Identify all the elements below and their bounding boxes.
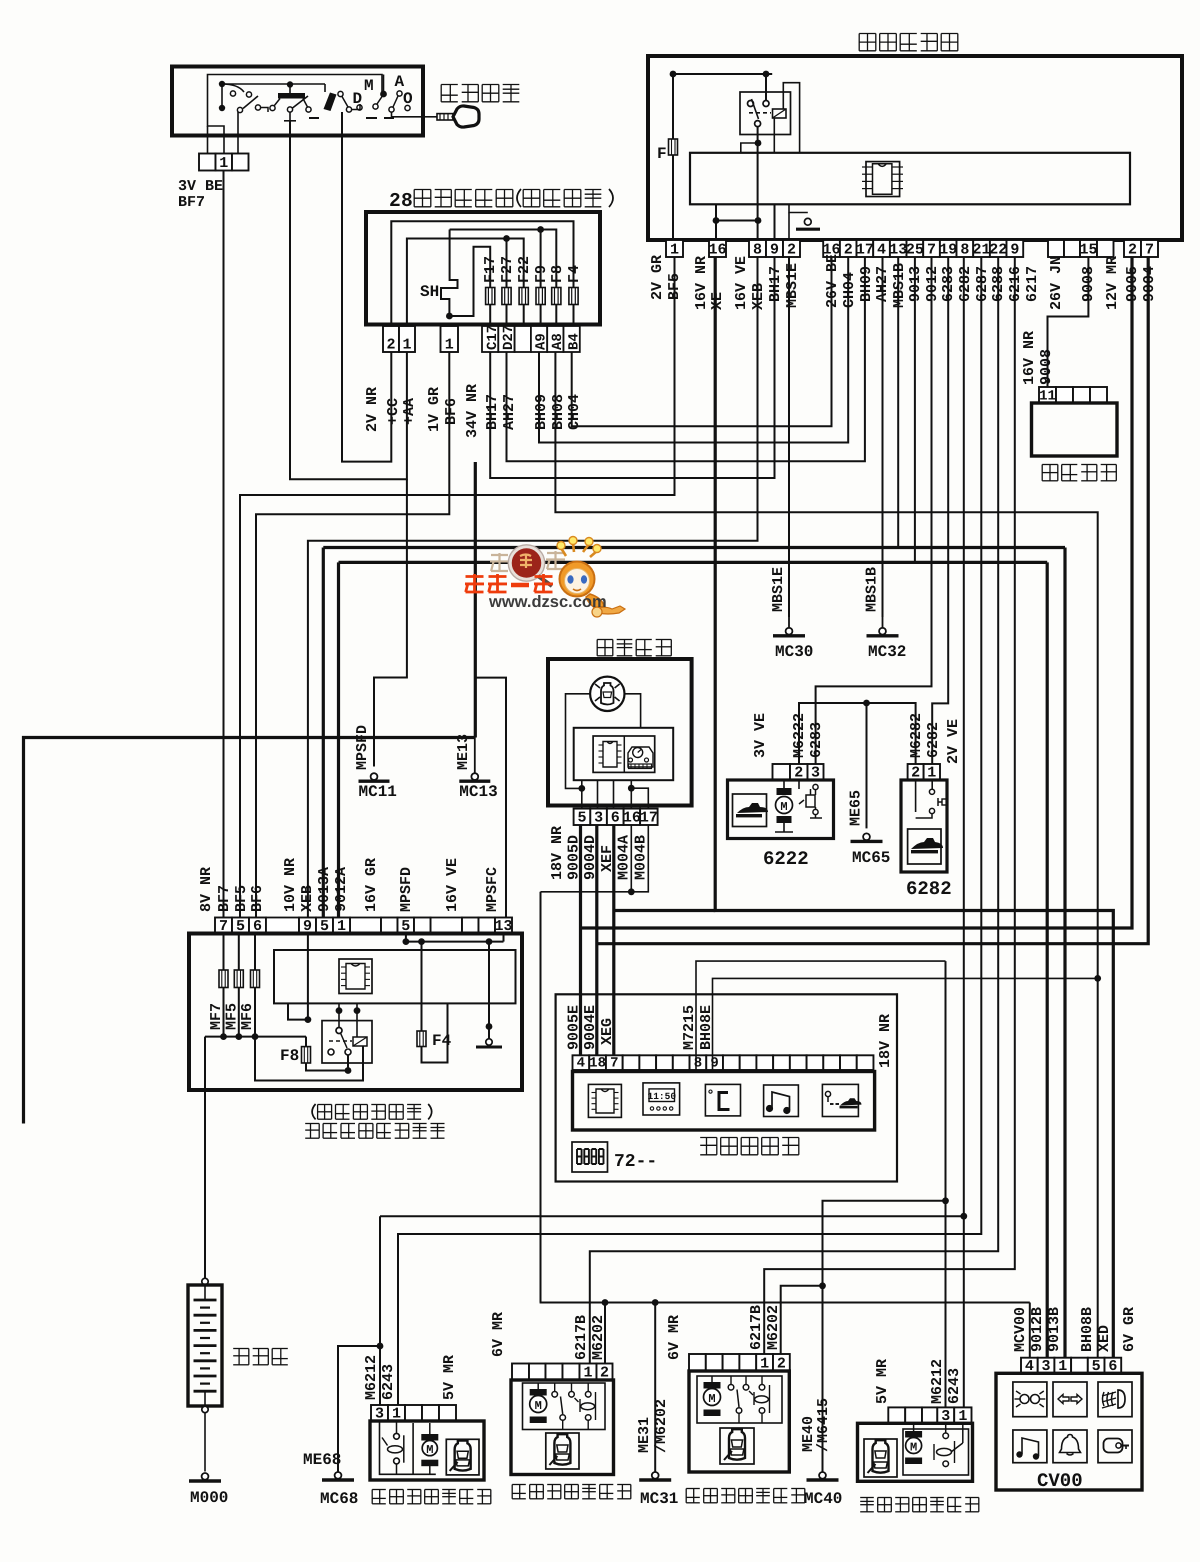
wire MF6 to relay coil xyxy=(255,1037,363,1081)
CV00 pin row 4 3 1 5 6 xyxy=(1021,1358,1038,1374)
fuse output stubs to pins xyxy=(489,305,491,325)
svg-text:16V NR: 16V NR xyxy=(693,256,710,310)
relay coil wire down to inner module xyxy=(773,118,775,153)
wire ME31 to ground MC31 xyxy=(654,1303,656,1472)
svg-text:F27: F27 xyxy=(499,256,516,283)
left-rear lock inner partition channels xyxy=(380,1421,436,1474)
svg-text:9: 9 xyxy=(770,242,779,259)
wire BF7 8V NR from ignition connector to engine fusebox pin 7 xyxy=(223,171,225,918)
fuse MF5 xyxy=(238,934,240,971)
labels 16V VE MPSFC xyxy=(444,858,461,912)
wire 1V GR BF6 from cabin fusebox to engine fusebox pin 6 xyxy=(256,352,449,918)
wire 6282 from control pin 19 to 6282 pin 1 xyxy=(932,257,948,764)
svg-text:16: 16 xyxy=(623,810,641,827)
dash segments of mechanical link xyxy=(309,117,319,119)
relay contact output wire to pins 16 and 8 xyxy=(757,127,759,221)
labels 8V NR BF7 BF5 BF6 xyxy=(198,867,215,912)
svg-text:MBS1B: MBS1B xyxy=(891,263,908,308)
wire BH08E from screen pin 9 to BH08 wire xyxy=(713,978,1098,1070)
wire 6283 from control pin 7 to 6222 pin 3 xyxy=(816,257,932,764)
svg-text:25: 25 xyxy=(906,242,924,259)
fuse F22 xyxy=(519,288,528,305)
svg-text:CH04: CH04 xyxy=(566,394,583,430)
wire 2V GR BF5 from control pin 1 to engine fusebox pin 5 xyxy=(240,257,675,918)
ground MC11 xyxy=(371,773,378,780)
ignition switch wire to fusebox +CC xyxy=(341,112,343,136)
wire F8 to relay contact xyxy=(306,1063,348,1071)
svg-text:MPSFC: MPSFC xyxy=(484,867,501,912)
svg-text:15: 15 xyxy=(1079,242,1097,259)
thick wire 34V NR horizontal run to left margin xyxy=(24,738,476,1124)
diagnostic plug title 诊断插头 xyxy=(1042,464,1058,466)
label BH17 xyxy=(767,266,784,302)
svg-text:M6212: M6212 xyxy=(929,1359,946,1404)
svg-text:6282: 6282 xyxy=(957,266,974,302)
wire M6202 rail with junctions to front lock pin2 ME31 and CV00 pin 4 xyxy=(540,1302,1030,1304)
svg-text:+AA: +AA xyxy=(401,398,418,425)
labels 16V GR MPSFD xyxy=(363,858,380,912)
left-rear lock 2 pin row 1 2 xyxy=(689,1354,706,1371)
right-rear lock pin row 3 1 xyxy=(888,1407,905,1423)
fuse MF6 xyxy=(254,934,256,971)
svg-text:BF7: BF7 xyxy=(216,885,233,912)
labels M7215 BH08E at screen pins xyxy=(681,1005,698,1050)
internal wire +AA to fuses F27 F22 xyxy=(407,239,524,325)
cluster car icon circle xyxy=(590,677,624,711)
labels 6V MR 6217B M6202 at front lock xyxy=(490,1312,507,1357)
wire MPSFC branch to engine fusebox pin 13 xyxy=(475,678,506,918)
svg-text:9005E: 9005E xyxy=(566,1005,583,1050)
svg-text:XEB: XEB xyxy=(299,885,316,912)
left-rear lock 2 motor xyxy=(704,1382,721,1389)
svg-text:CH04: CH04 xyxy=(841,272,858,308)
label MBS1E at MC30 xyxy=(770,567,787,612)
svg-text:M: M xyxy=(426,1443,433,1457)
relay coil wire around to module top xyxy=(783,83,799,153)
battery plates xyxy=(204,1285,206,1300)
fuse F8 xyxy=(305,1037,307,1047)
label 18V NR at screen right xyxy=(877,1014,894,1068)
svg-text:18V NR: 18V NR xyxy=(877,1014,894,1068)
svg-text:A: A xyxy=(395,73,405,91)
svg-text:21: 21 xyxy=(973,242,991,259)
svg-text:3V VE: 3V VE xyxy=(752,713,769,758)
svg-text:F17: F17 xyxy=(482,256,499,283)
wire rung joining left-rear lock pin 3 M6212 to 6287 line xyxy=(380,1215,964,1217)
svg-text:6287: 6287 xyxy=(974,266,991,302)
screen pin row 4 18 7 .. 8 9 xyxy=(573,1055,590,1070)
svg-text:17: 17 xyxy=(640,810,658,827)
svg-text:BH09: BH09 xyxy=(533,394,550,430)
svg-text:XEG: XEG xyxy=(599,1018,616,1045)
svg-text:5V MR: 5V MR xyxy=(874,1359,891,1404)
svg-text:MBS1B: MBS1B xyxy=(864,567,881,612)
relay inside control box xyxy=(765,74,767,101)
svg-text:16V VE: 16V VE xyxy=(733,256,750,310)
cluster inner module box xyxy=(574,728,674,780)
svg-text:AH27: AH27 xyxy=(501,394,518,430)
svg-text:16V NR: 16V NR xyxy=(1021,331,1038,385)
svg-text:12V MR: 12V MR xyxy=(1104,256,1121,310)
labels ME31 /M6202 xyxy=(636,1417,653,1453)
right-rear lock title 右后车门锁总成 xyxy=(860,1497,874,1499)
svg-text:M6212: M6212 xyxy=(363,1355,380,1400)
front lock car icon xyxy=(546,1433,579,1469)
ignition switch top link wire xyxy=(222,83,325,85)
svg-text:6217B: 6217B xyxy=(573,1315,590,1360)
wire from module to pin 16 with junction xyxy=(713,217,720,224)
wire M6212 from rung to left-rear lock pin 3 with MC68 tap xyxy=(379,1216,381,1405)
svg-text:www.dzsc.com: www.dzsc.com xyxy=(488,593,607,611)
engine panel IC chip icon xyxy=(339,959,372,994)
wire relay output to pin 8 xyxy=(757,221,759,241)
svg-text:3V BE: 3V BE xyxy=(178,178,223,195)
wire 16V VE XEB from control pin 8 to engine fusebox pin 9 xyxy=(308,257,758,918)
wire M ground net down to M6202 rail xyxy=(540,892,542,1303)
wire 6288 from control pin 21 to left-rear lock pin 1 xyxy=(398,257,981,1405)
control box pin row blanks and 15 xyxy=(1048,240,1064,257)
labels 16V VE XEB xyxy=(733,256,750,310)
svg-text:M: M xyxy=(780,800,787,814)
ignition switch wire to connector cell 3 xyxy=(237,112,239,154)
fuse F17 xyxy=(486,288,495,305)
svg-text:2: 2 xyxy=(1128,242,1137,259)
svg-text:1: 1 xyxy=(445,337,454,354)
label BH09 xyxy=(858,266,875,302)
svg-text:MF7: MF7 xyxy=(208,1003,225,1030)
left-rear lock 2 inner frame xyxy=(697,1376,782,1423)
labels 26V BE CH04 xyxy=(824,254,841,308)
ground MC31 xyxy=(652,1472,659,1479)
key symbol xyxy=(423,116,437,118)
thick wire 9013 bus from control pin 13 to engine pin 5 and CV00 pin 1 xyxy=(897,257,899,548)
svg-text:5: 5 xyxy=(577,810,586,827)
svg-text:9012A: 9012A xyxy=(333,867,350,912)
label 9008 xyxy=(1080,266,1097,302)
svg-text:CV00: CV00 xyxy=(1037,1470,1083,1492)
svg-text:1: 1 xyxy=(670,242,679,259)
IC chip symbol inside control box module xyxy=(866,162,900,197)
svg-text:MC31: MC31 xyxy=(640,1490,678,1508)
watermark logo 找芯片 with magnifier xyxy=(491,554,508,556)
label MBS1B xyxy=(891,263,908,308)
svg-text:BF6: BF6 xyxy=(249,885,266,912)
wire 6216 from control pin 22 to front lock pin 1 xyxy=(590,257,998,1364)
ground MC13 xyxy=(474,738,476,773)
CV00 box xyxy=(996,1373,1142,1490)
ground MC40 xyxy=(819,1472,826,1479)
right-rear lock inner frame xyxy=(903,1429,969,1475)
svg-text:6: 6 xyxy=(611,810,620,827)
internal wire +CC to fuse F4 xyxy=(391,221,573,324)
svg-text:72--: 72-- xyxy=(614,1152,657,1172)
svg-text:1V GR: 1V GR xyxy=(426,387,443,432)
engine fusebox panel pin group 9 5 1 xyxy=(299,918,316,934)
svg-text:6243: 6243 xyxy=(380,1364,397,1400)
wire CH04 26V BE from cabin fusebox B4 to control pin 16 xyxy=(572,257,832,426)
left-rear lock 2 contacts xyxy=(730,1376,732,1385)
ignition switch contact set 3 (blade) xyxy=(324,93,337,112)
engine panel MPSFD input bus with dots xyxy=(405,934,407,942)
svg-text:B4: B4 xyxy=(566,333,582,350)
svg-text:F8: F8 xyxy=(549,265,566,283)
wire M7215 M6212 down to right-rear lock pin 3 xyxy=(945,961,947,1407)
label 6283 xyxy=(940,266,957,302)
label 9013 xyxy=(907,266,924,302)
thick wire 12V MR 9005 from control pin 2 to cluster feed xyxy=(581,257,1133,928)
front door lock assembly box xyxy=(511,1380,614,1475)
svg-text:16: 16 xyxy=(708,242,726,259)
labels MF7 MF5 MF6 xyxy=(208,1003,225,1030)
svg-text:9013B: 9013B xyxy=(1046,1307,1063,1352)
svg-text:3: 3 xyxy=(594,810,603,827)
cluster wire from car icon to module xyxy=(625,694,641,728)
svg-text:MC40: MC40 xyxy=(804,1490,842,1508)
thick wire 9004D cluster to screen pin 18 xyxy=(595,825,598,1055)
instrument cluster title 组合仪表 xyxy=(597,639,613,641)
labels 34V NR BH17 AH27 xyxy=(464,384,481,438)
svg-text:F: F xyxy=(657,145,667,163)
svg-text:MC30: MC30 xyxy=(775,643,813,661)
svg-text:1: 1 xyxy=(219,155,228,172)
wire ME65 to ground MC65 xyxy=(866,703,868,828)
left-rear lock motor xyxy=(421,1434,438,1441)
relay box in engine panel xyxy=(322,1021,372,1063)
svg-text:M: M xyxy=(708,1392,715,1406)
svg-text:8: 8 xyxy=(401,190,413,212)
svg-text:MF5: MF5 xyxy=(224,1003,241,1030)
svg-text:D: D xyxy=(353,90,363,108)
labels BH09 BH08 CH04 xyxy=(533,394,550,430)
svg-text:M6222: M6222 xyxy=(791,713,808,758)
diagnostic plug box 诊断插头 xyxy=(1032,403,1118,456)
svg-text:MCV00: MCV00 xyxy=(1012,1307,1029,1352)
label ME13 at MC13 xyxy=(455,734,472,770)
labels 10V NR XEB 9013A 9012A xyxy=(282,858,299,912)
svg-text:XE: XE xyxy=(709,292,726,310)
ignition switch sw2 ground tick xyxy=(289,112,291,121)
left-rear lock 2 title 左后车门锁总成 xyxy=(686,1488,700,1490)
CV00 headlight warning icon xyxy=(1013,1382,1047,1417)
svg-text:6V MR: 6V MR xyxy=(666,1315,683,1360)
smart control box title 智能控制盒 xyxy=(859,33,876,35)
wire BH17 from cabin fusebox C17 to control pin 9 xyxy=(490,257,774,478)
CV00 key icon xyxy=(1098,1430,1132,1463)
battery terminal top xyxy=(202,1278,208,1284)
svg-text:26V JN: 26V JN xyxy=(1048,256,1065,310)
6222 car lock icon box xyxy=(733,794,767,827)
smart control box 智能控制盒 outline xyxy=(648,56,1182,240)
label 6287 xyxy=(974,266,991,302)
battery label 蓄电池 xyxy=(233,1348,249,1350)
svg-text:6V GR: 6V GR xyxy=(1121,1307,1138,1352)
svg-text:F4: F4 xyxy=(432,1032,452,1050)
battery negative wire to M000 xyxy=(202,1406,208,1412)
svg-text:1: 1 xyxy=(402,337,411,354)
left-rear lock switch xyxy=(396,1421,398,1434)
svg-text:16V VE: 16V VE xyxy=(444,858,461,912)
svg-text:9013A: 9013A xyxy=(316,867,333,912)
wire ME68 branch to ground MC68 xyxy=(338,1346,380,1472)
wire M bridge to ME40 ground chain xyxy=(823,1201,946,1472)
label 6288 xyxy=(990,266,1007,302)
label 6216 xyxy=(1007,266,1024,302)
ignition switch output line to key xyxy=(392,112,424,117)
right-rear lock car icon xyxy=(864,1439,897,1477)
svg-text:8: 8 xyxy=(694,1056,702,1072)
ignition switch inner feed wire to connector pin 1 xyxy=(208,75,383,154)
screen music note icon xyxy=(764,1085,799,1117)
svg-text:8: 8 xyxy=(960,242,969,259)
cluster wires from module to pins with junction for 16 17 xyxy=(581,780,583,808)
engine fusebox panel pin group 5 MPSFD xyxy=(381,918,398,934)
svg-text:11:50: 11:50 xyxy=(648,1091,677,1102)
svg-text:22: 22 xyxy=(989,242,1007,259)
label AH27 xyxy=(874,266,891,302)
labels 16V NR 9008 at diagnostic plug xyxy=(1021,331,1038,385)
cabin fuse box pin group C17 D27 A9 A8 B4 (rotated cell texts) xyxy=(482,326,498,352)
svg-text:ME13: ME13 xyxy=(455,734,472,770)
svg-text:BF5: BF5 xyxy=(233,885,250,912)
wire M6222 M6282 with ME65 junction xyxy=(799,703,916,764)
svg-text:17: 17 xyxy=(856,242,874,259)
wire M004A from cluster pin 16 xyxy=(630,825,632,892)
svg-text:MC32: MC32 xyxy=(868,643,906,661)
screen inner thick box xyxy=(573,1072,875,1131)
svg-text:ME68: ME68 xyxy=(303,1451,341,1469)
svg-text:2: 2 xyxy=(386,337,395,354)
svg-text:18: 18 xyxy=(589,1056,606,1072)
labels ME40 /M6415 xyxy=(800,1416,817,1452)
svg-text:4: 4 xyxy=(577,1056,585,1072)
control box pin row 2 7 xyxy=(1124,240,1141,257)
svg-text:2V NR: 2V NR xyxy=(364,387,381,432)
lock unit 6282 box xyxy=(901,780,947,872)
svg-text:18V NR: 18V NR xyxy=(549,826,566,880)
svg-text:MPSFD: MPSFD xyxy=(398,867,415,912)
CV00 music note icon xyxy=(1013,1430,1047,1463)
connector under ignition switch, pin 1 xyxy=(199,154,216,171)
front lock motor xyxy=(530,1389,547,1396)
thick wire 9005D cluster to screen pin 4 xyxy=(579,825,582,1055)
left-rear door lock assembly 2 box xyxy=(689,1371,789,1472)
cluster car icon glyph xyxy=(601,683,614,705)
fuse MF7 xyxy=(223,934,225,971)
left-rear lock pin row 3 1 xyxy=(371,1405,388,1421)
ignition switch contact set 1 xyxy=(219,81,225,87)
wire 6217 from control pin 9 to left-rear lock 2 pin 1 xyxy=(764,257,1015,1354)
svg-text:F9: F9 xyxy=(533,265,550,283)
fuse F inside control box xyxy=(672,74,674,139)
svg-text:ME65: ME65 xyxy=(848,790,865,826)
svg-text:BH09: BH09 xyxy=(858,266,875,302)
left-rear lock title 左后车门锁总成 xyxy=(372,1489,386,1491)
svg-text:MPSFD: MPSFD xyxy=(354,725,371,770)
label 9012 xyxy=(924,266,941,302)
ignition switch contact set 2 (heater bar) xyxy=(278,93,305,99)
fuse F4 xyxy=(421,942,423,1031)
svg-text:2: 2 xyxy=(389,190,401,212)
svg-text:6V MR: 6V MR xyxy=(490,1312,507,1357)
screen key and car icon xyxy=(822,1084,858,1116)
svg-text:M000: M000 xyxy=(190,1489,228,1507)
relay wires up to module with dots xyxy=(338,1020,340,1028)
battery box 蓄电池 xyxy=(188,1285,222,1406)
front lock contacts xyxy=(554,1383,556,1392)
thick wire 9004 from control pin 7 to cluster feed xyxy=(597,257,1148,944)
svg-text:2: 2 xyxy=(787,242,796,259)
svg-text:6282: 6282 xyxy=(925,722,942,758)
instrument cluster box 组合仪表 xyxy=(548,659,692,806)
svg-text:MBS1E: MBS1E xyxy=(770,567,787,612)
labels 16V NR XE xyxy=(693,256,710,310)
svg-text:6217B: 6217B xyxy=(748,1305,765,1350)
svg-text:9004E: 9004E xyxy=(582,1005,599,1050)
screen title 多功能屏幕 xyxy=(700,1137,717,1139)
cluster module icon panel xyxy=(593,736,655,772)
ground MC68 xyxy=(335,1472,342,1479)
multi-function screen outer box xyxy=(556,994,897,1181)
wire MBS1B from control pin 4 to ground MC32 xyxy=(882,257,884,617)
svg-text:2V GR: 2V GR xyxy=(649,255,666,300)
label 26V JN xyxy=(1048,256,1065,310)
svg-text:10V NR: 10V NR xyxy=(282,858,299,912)
svg-text:2V VE: 2V VE xyxy=(945,719,962,764)
svg-text:6283: 6283 xyxy=(808,722,825,758)
wire 6287 from control pin 8 down to right-rear lock pin 1 xyxy=(963,257,965,1407)
label MBS1B at MC32 xyxy=(864,567,881,612)
door switch symbol to pin 2 MBS1E xyxy=(789,204,808,212)
svg-text:7: 7 xyxy=(610,1056,618,1072)
svg-text:BF7: BF7 xyxy=(178,194,205,211)
control box pin row 16 xyxy=(709,240,726,257)
ignition switch wire 2V NR to fusebox +AA xyxy=(289,121,291,136)
engine panel wide blank cells xyxy=(266,918,299,934)
engine panel battery feed bus with junction dots xyxy=(205,1036,306,1038)
front lock pin row 1 2 xyxy=(512,1364,529,1381)
cabin fuse box pin group 1 BF6 xyxy=(441,326,459,352)
fuse F4 xyxy=(569,288,578,305)
battery feed wire down to battery xyxy=(204,1037,206,1278)
wire M004B from cluster pin 17 joining M ground net xyxy=(541,825,649,892)
svg-text:4: 4 xyxy=(877,242,886,259)
thick wire 16V NR XE from control pin 16 to CV00 pin 6 xyxy=(715,257,1113,1358)
svg-text:MC11: MC11 xyxy=(359,783,397,801)
svg-text:7: 7 xyxy=(1145,242,1154,259)
labels BH08B XED 6V GR at CV00 xyxy=(1079,1307,1096,1352)
thick wire 9012 bus from control pin 25 to engine pin 1 and CV00 pin 3 xyxy=(914,257,916,562)
svg-text:MC65: MC65 xyxy=(852,849,890,867)
label MPSFD at MC11 xyxy=(354,725,371,770)
cluster pin row 5 3 6 16 17 xyxy=(574,809,591,825)
front lock inner frame xyxy=(523,1383,606,1430)
cabin fuse box 28路熔断器盒 outline xyxy=(366,212,600,325)
inner wide module box of control box xyxy=(690,153,1130,205)
left-rear door lock assembly box xyxy=(370,1421,484,1480)
labels 18V NR 9005D 9004D XEF M004A M004B xyxy=(549,826,566,880)
svg-text:BH08B: BH08B xyxy=(1079,1307,1096,1352)
wire M7215 from screen pin 8 to M ground net xyxy=(696,961,946,1070)
watermark mascot xyxy=(560,536,604,551)
svg-text:7: 7 xyxy=(927,242,936,259)
screen IC chip icon xyxy=(588,1084,621,1117)
cluster wire from car icon to pin 5 xyxy=(566,694,591,789)
fuse F8 xyxy=(552,288,561,305)
labels 5V MR M6212 6243 at right-rear lock xyxy=(874,1359,891,1404)
svg-text:BH08: BH08 xyxy=(550,394,567,430)
labels MCV00 9012B 9013B at CV00 xyxy=(1012,1307,1029,1352)
svg-text:13: 13 xyxy=(889,242,907,259)
